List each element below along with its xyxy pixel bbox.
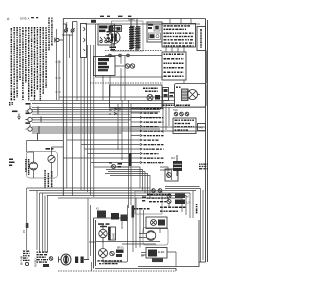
svg-text:BR: BR <box>141 256 145 258</box>
oven element block lower <box>146 248 167 259</box>
aux relay box right <box>146 217 167 229</box>
label row under element block <box>141 256 163 263</box>
relay board outline <box>94 218 129 269</box>
svg-text:TOD: TOD <box>173 110 178 112</box>
relay II contact set <box>171 155 182 176</box>
door lock assembly outline <box>27 152 58 179</box>
cooling fan enclosure <box>143 228 168 246</box>
wire bottom right drops <box>169 204 203 263</box>
spark module box <box>147 22 162 42</box>
wire lock motor loop <box>27 141 64 179</box>
svg-text:P4: P4 <box>24 229 26 233</box>
relay coil box K1 <box>111 26 122 32</box>
svg-text:FAN: FAN <box>199 127 204 130</box>
wire bottom connectors <box>141 252 176 267</box>
door switch S1 <box>62 24 68 37</box>
fuse links row <box>94 54 163 100</box>
wires to fan box <box>95 51 207 104</box>
wire right border lower <box>199 261 206 263</box>
bottom-left lead labels group 2 <box>36 252 53 268</box>
cooling fan label plate <box>196 124 206 131</box>
relay R3 top <box>121 215 128 222</box>
svg-text:SW: SW <box>62 35 67 37</box>
wire riser to relay board <box>88 198 95 271</box>
harness labels top of bus <box>109 108 121 116</box>
bake relay label <box>98 223 110 227</box>
convection fan motor box <box>162 84 206 108</box>
wire bundle L2 (4 lines to right) <box>32 127 206 133</box>
schematic outer border top <box>63 18 205 20</box>
vertical bus mid <box>118 56 131 208</box>
plug pair bottom <box>75 257 89 264</box>
svg-text:BK PWR: BK PWR <box>22 255 24 265</box>
oven sensor plugs row <box>167 194 190 205</box>
svg-text:HI: HI <box>187 197 190 199</box>
svg-text:BAKE: BAKE <box>113 232 116 239</box>
harness pass-through plug <box>163 88 175 101</box>
schematic bottom border <box>58 270 176 272</box>
wire drops from top area <box>66 22 96 198</box>
relay output box outline <box>135 191 162 214</box>
relay output contacts <box>152 189 162 193</box>
chassis ground symbol <box>12 111 21 120</box>
svg-text:K3: K3 <box>96 209 100 211</box>
connector P1 (power lead 1) <box>26 103 33 113</box>
lock wiring labels <box>44 170 52 188</box>
dashed separator line <box>105 50 162 52</box>
bake element motor symbol <box>59 254 72 265</box>
wire latch to border <box>196 130 206 132</box>
svg-text:LO: LO <box>187 203 190 205</box>
wire stub label <box>24 223 28 233</box>
broil coil glyphs <box>116 248 125 258</box>
wire bundle N (3 lines to right) <box>32 118 160 123</box>
vertical wire pair left <box>57 29 60 100</box>
notes text block (rotated service notes) <box>9 18 53 107</box>
thermostat row <box>132 206 150 218</box>
bake relay coil box <box>109 227 116 240</box>
inner dashed console box top <box>85 23 200 25</box>
dashed chassis line mid <box>90 82 163 84</box>
svg-text:SUPPLY: SUPPLY <box>36 257 38 267</box>
top margin tick labels <box>100 16 131 17</box>
door label left margin <box>9 159 15 167</box>
nested corner turns upper <box>105 167 150 198</box>
door lock motor M1 <box>25 159 37 175</box>
EOC to terminal wires <box>166 47 184 52</box>
broil relay contact circle <box>99 249 115 258</box>
svg-text:BK: BK <box>109 110 113 112</box>
bottom-left lead labels group 1 <box>22 251 30 266</box>
oven sensor label rows <box>160 207 185 212</box>
wire drops bottom-left bundle <box>40 193 48 252</box>
wire TAB label <box>196 189 203 241</box>
double line relay K1 circle <box>107 27 121 51</box>
relay R2 top <box>111 213 119 220</box>
broil coil label row <box>98 260 123 264</box>
harness label rows right of bus <box>63 108 163 168</box>
lock switch S2 <box>69 22 77 38</box>
latch motor box <box>173 118 196 134</box>
thermal cutout cluster <box>109 162 146 202</box>
wire splice ticks <box>38 107 42 141</box>
appliance control enclosure outline <box>112 21 144 51</box>
wire tap above latch box <box>91 20 96 23</box>
svg-text:A: A <box>7 17 10 21</box>
svg-text:BROIL: BROIL <box>117 248 125 250</box>
wire bundle L1 (4 lines to right) <box>32 107 206 114</box>
cooling fan motor circle <box>96 231 161 244</box>
relay R1 top <box>96 209 106 218</box>
svg-text:ELEM: ELEM <box>158 252 164 254</box>
wire stubs top-right <box>170 19 191 24</box>
schematic outer border left <box>62 19 64 197</box>
transformer T1 primary winding <box>128 19 141 51</box>
membrane keypad box <box>197 27 206 51</box>
svg-text:J2: J2 <box>118 109 121 112</box>
connector P2 (power lead 2) <box>26 113 33 122</box>
bake element enclosure box <box>110 85 163 108</box>
svg-text:NOTE: A: NOTE: A <box>20 18 30 21</box>
connector P3 (power lead 3) <box>26 122 33 131</box>
oven door plug J1 <box>55 38 64 43</box>
bus right corner drops <box>182 191 193 219</box>
svg-text:XFMR: XFMR <box>128 20 135 22</box>
wire verticals through relay board <box>103 198 160 262</box>
main horizontal bus group <box>27 188 196 198</box>
lock motor cam switch S3 <box>46 148 56 163</box>
thermal fuse row TF1 <box>173 110 189 116</box>
relay board lower border <box>95 220 199 271</box>
bus corner turns left side <box>27 188 37 250</box>
control board EOC box <box>162 24 196 48</box>
terminal strip rows <box>162 52 186 80</box>
wire risers right block <box>160 167 201 189</box>
svg-text:RLY: RLY <box>171 158 176 160</box>
bake relay contact circle <box>99 224 107 243</box>
splice block on harness bus <box>129 153 132 166</box>
schematic outer border right (double line) <box>206 19 208 263</box>
latch cam switch assembly <box>98 24 115 45</box>
relay output text rows <box>147 194 171 203</box>
right side vertical feeders <box>163 101 169 133</box>
horizontal bus pair mid <box>30 97 163 104</box>
terminal block TB right <box>199 164 208 170</box>
oven light assembly box <box>81 24 87 58</box>
element junction box <box>165 169 178 181</box>
